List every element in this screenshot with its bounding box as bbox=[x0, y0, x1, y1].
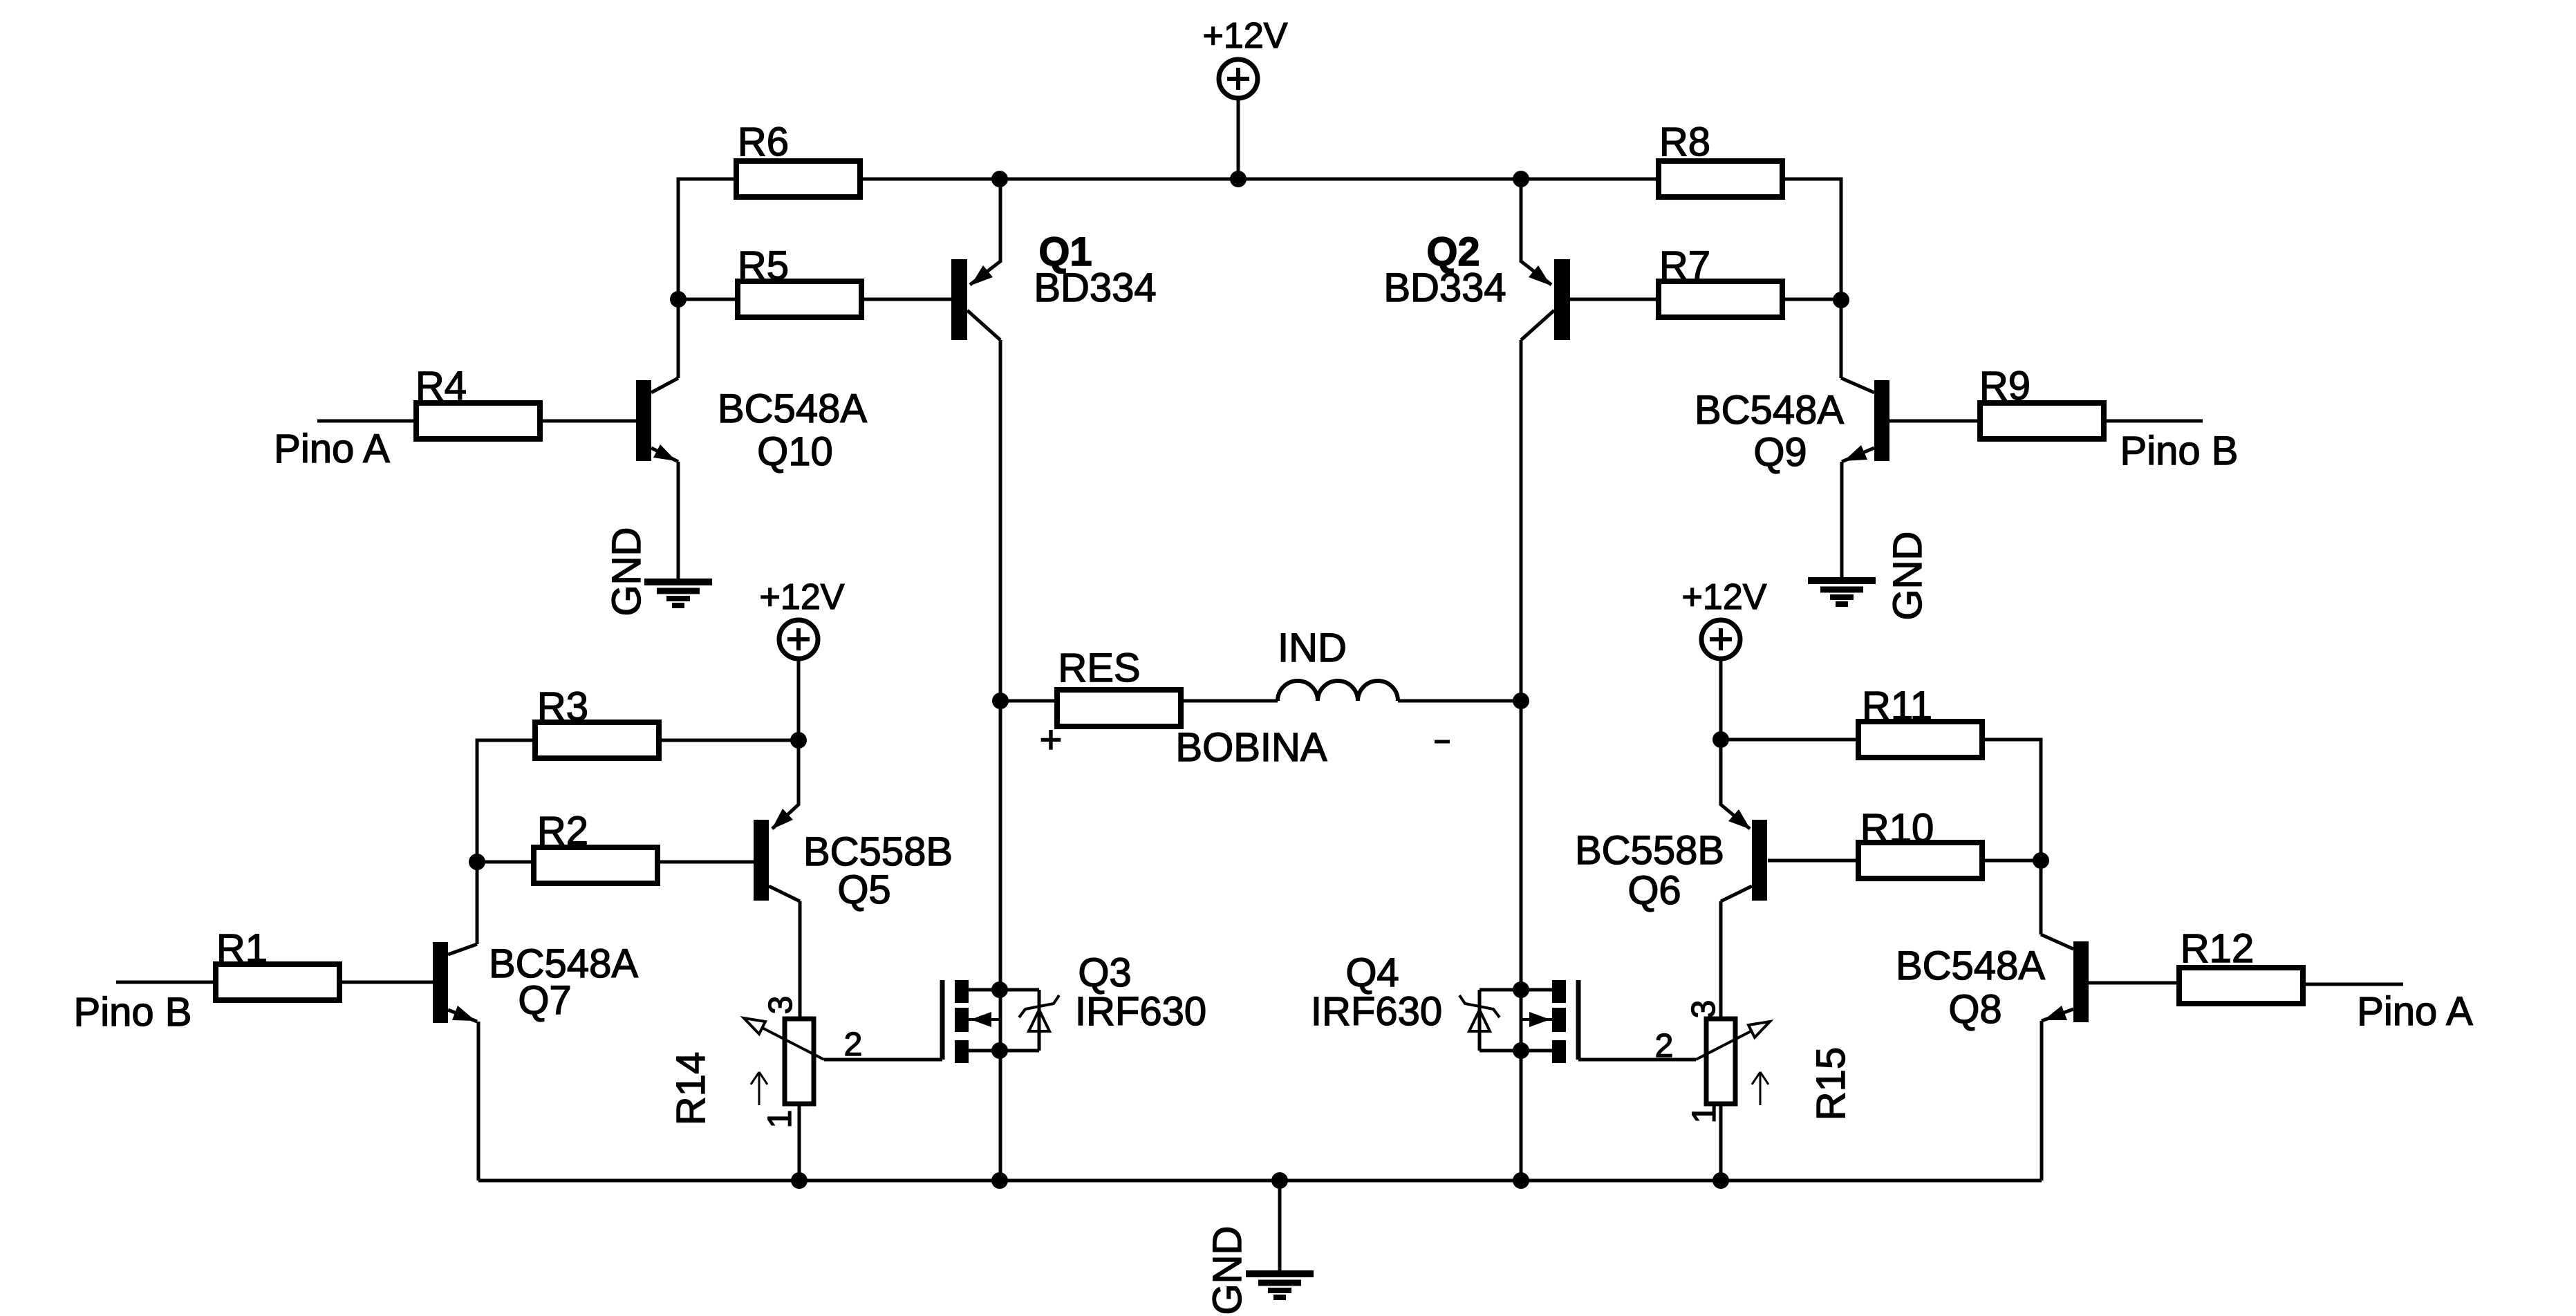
resistor R9 bbox=[1979, 364, 2104, 439]
resistor R3 bbox=[535, 684, 659, 758]
ground GND (bottom) bbox=[1246, 1274, 1314, 1297]
node RES row right bbox=[1513, 693, 1529, 709]
svg-text:Q9: Q9 bbox=[1753, 430, 1807, 475]
wire Q2 collector vertical bbox=[1520, 340, 1523, 1181]
label Pino A (right) bbox=[2357, 989, 2473, 1034]
potentiometer R15 bbox=[1696, 1019, 1770, 1105]
svg-text:Q7: Q7 bbox=[518, 978, 571, 1023]
label Q5 bbox=[837, 867, 890, 912]
transistor Q10 (BC548A NPN) bbox=[636, 378, 678, 462]
resistor R10 bbox=[1858, 806, 1982, 878]
label - (load polarity) bbox=[1435, 740, 1450, 744]
node Q3 drain bbox=[991, 981, 1008, 998]
label Q6 BC558B bbox=[1575, 828, 1724, 873]
wire R15 wiper to Q4 gate bbox=[1578, 1058, 1696, 1062]
svg-text:R10: R10 bbox=[1860, 806, 1934, 851]
label Q4 IRF630 bbox=[1311, 989, 1442, 1034]
transistor Q1 (BD334 PNP) bbox=[951, 179, 1000, 340]
wire left vertical to Q10 collector bbox=[677, 299, 680, 378]
svg-text:3: 3 bbox=[763, 996, 799, 1015]
label GND (bottom) bbox=[1205, 1226, 1250, 1315]
svg-text:+12V: +12V bbox=[1203, 16, 1288, 56]
node rail R14 bbox=[791, 1172, 808, 1189]
svg-text:+12V: +12V bbox=[760, 577, 845, 617]
ground GND (below Q10) bbox=[644, 582, 712, 605]
svg-text:BC548A: BC548A bbox=[1695, 388, 1844, 433]
node rail GND stem bbox=[1271, 1172, 1288, 1189]
label R14 pin 1 bbox=[762, 1110, 799, 1129]
label Q1 BD334 bbox=[1034, 265, 1156, 310]
svg-text:Q5: Q5 bbox=[837, 867, 890, 912]
wire R3 to +12V node bbox=[659, 739, 799, 742]
wire R8 to top-right corner bbox=[1782, 179, 1841, 378]
label + (load polarity) bbox=[1040, 717, 1063, 761]
svg-text:GND: GND bbox=[1885, 532, 1930, 621]
power +12V supply symbol (right) bbox=[1682, 577, 1767, 659]
svg-text:R6: R6 bbox=[738, 120, 789, 164]
svg-text:Q6: Q6 bbox=[1627, 868, 1681, 913]
resistor R5 bbox=[738, 243, 861, 317]
wire Q10 emitter to ground bbox=[677, 462, 680, 582]
label Q10 BC548A bbox=[718, 386, 867, 431]
label Q9 BC548A bbox=[1695, 388, 1844, 433]
svg-text:BC548A: BC548A bbox=[718, 386, 867, 431]
svg-text:1: 1 bbox=[1686, 1105, 1723, 1124]
wire Q6 base to R10 bbox=[1768, 859, 1858, 863]
wire R11 left bbox=[1721, 738, 1858, 742]
wire R15 pin1 to rail bbox=[1719, 1104, 1723, 1181]
svg-text:1: 1 bbox=[762, 1110, 799, 1129]
wire R5 to Q1 base bbox=[861, 298, 951, 301]
resistor R2 bbox=[534, 809, 657, 883]
transistor Q9 (BC548A NPN) bbox=[1841, 378, 1889, 462]
mosfet Q3 (IRF630 with body diode) bbox=[942, 980, 1059, 1063]
label IND bbox=[1278, 626, 1347, 670]
wire R4 to Q10 base bbox=[541, 420, 636, 423]
node rail Q4 source bbox=[1513, 1172, 1529, 1189]
label R14 pin 3 bbox=[763, 996, 799, 1015]
node Q4 drain bbox=[1513, 981, 1529, 998]
svg-text:Pino A: Pino A bbox=[2357, 989, 2473, 1034]
wire Q1 collector vertical bbox=[999, 340, 1002, 1181]
inductor IND bbox=[1278, 681, 1398, 701]
label R14 bbox=[669, 1052, 713, 1125]
wire Q8 base to R12 bbox=[2089, 981, 2179, 985]
wire GND bottom stem bbox=[1278, 1181, 1282, 1274]
resistor RES bbox=[1057, 646, 1181, 726]
label Q8 bbox=[1948, 987, 2001, 1032]
svg-text:R4: R4 bbox=[416, 364, 467, 408]
wire IND right bbox=[1398, 699, 1521, 703]
svg-text:BC548A: BC548A bbox=[1896, 943, 2045, 988]
transistor Q2 (BD334 PNP) bbox=[1521, 179, 1570, 340]
wire R2 left bbox=[477, 861, 534, 864]
node rail Q3 source bbox=[991, 1172, 1008, 1189]
svg-text:R9: R9 bbox=[1979, 364, 2031, 408]
svg-text:R1: R1 bbox=[216, 926, 268, 971]
wire Q7 emitter to rail bbox=[477, 1022, 480, 1181]
node top rail / Q2 emitter bbox=[1513, 171, 1529, 187]
label Q3 IRF630 bbox=[1075, 989, 1206, 1034]
transistor Q7 (BC548A NPN) bbox=[433, 942, 477, 1023]
label Q7 BC548A bbox=[489, 941, 638, 986]
resistor R8 bbox=[1659, 120, 1782, 197]
potentiometer R14 bbox=[744, 1018, 824, 1105]
wire RES left bbox=[1000, 699, 1057, 703]
svg-text:IRF630: IRF630 bbox=[1075, 989, 1206, 1034]
label Q1 bbox=[1038, 229, 1092, 274]
wire Pino A input bbox=[317, 420, 416, 423]
wire R10 right bbox=[1982, 859, 2041, 863]
wire top-left corner to R6 bbox=[678, 179, 736, 299]
svg-text:R8: R8 bbox=[1659, 120, 1710, 164]
svg-text:Pino A: Pino A bbox=[274, 426, 390, 471]
node R2 tap left bbox=[469, 854, 485, 870]
node rail R15 bbox=[1712, 1172, 1729, 1189]
wire top rail R6 to R8 bbox=[860, 178, 1659, 181]
svg-text:RES: RES bbox=[1058, 646, 1140, 690]
svg-text:R7: R7 bbox=[1659, 243, 1710, 288]
label R14 pin 2 bbox=[844, 1026, 863, 1063]
resistor R6 bbox=[736, 120, 860, 197]
mosfet Q4 (IRF630 with body diode) bbox=[1459, 980, 1578, 1063]
label R15 pin 3 bbox=[1686, 1000, 1722, 1019]
svg-text:3: 3 bbox=[1686, 1000, 1722, 1019]
svg-text:+: + bbox=[1040, 717, 1063, 761]
svg-text:+12V: +12V bbox=[1682, 577, 1767, 617]
svg-text:BD334: BD334 bbox=[1383, 265, 1506, 310]
label Q9 bbox=[1753, 430, 1807, 475]
wire R1 to Q7 base bbox=[339, 981, 433, 984]
label GND (left top) bbox=[604, 527, 649, 617]
resistor R12 bbox=[2179, 926, 2303, 1004]
svg-text:R15: R15 bbox=[1809, 1047, 1854, 1120]
wire R14 pin1 to rail bbox=[798, 1104, 801, 1181]
svg-text:R11: R11 bbox=[1862, 684, 1932, 728]
label R15 pin 2 bbox=[1655, 1028, 1674, 1064]
wire R3 row left corner bbox=[477, 740, 535, 944]
wire R2 to Q5 base bbox=[657, 861, 754, 864]
label Q2 BD334 bbox=[1383, 265, 1506, 310]
wire R7 to Q2 base bbox=[1568, 298, 1659, 301]
svg-text:BC558B: BC558B bbox=[1575, 828, 1724, 873]
wire R12 to Pino A bbox=[2303, 983, 2403, 986]
node R7 tap right bbox=[1833, 292, 1849, 308]
label Q7 bbox=[518, 978, 571, 1023]
wire Q9 emitter to ground bbox=[1840, 462, 1844, 581]
svg-text:R3: R3 bbox=[537, 684, 588, 729]
wire +12V left stem bbox=[797, 659, 801, 740]
label Q5 BC558B bbox=[803, 829, 953, 874]
wire R11 right corner bbox=[1982, 740, 2041, 934]
label R15 bbox=[1809, 1047, 1854, 1120]
wire R5 left bbox=[678, 298, 738, 301]
svg-text:R5: R5 bbox=[738, 243, 789, 288]
wire +12V right stem bbox=[1719, 659, 1723, 740]
svg-text:Pino B: Pino B bbox=[74, 990, 192, 1035]
svg-text:2: 2 bbox=[844, 1026, 863, 1063]
wire R7 right bbox=[1782, 298, 1841, 301]
label Q2 bbox=[1426, 229, 1480, 274]
label Q3 bbox=[1078, 950, 1131, 995]
svg-text:Q10: Q10 bbox=[757, 429, 833, 474]
node R11 row tap bbox=[1712, 731, 1729, 748]
wire RES to IND bbox=[1181, 699, 1278, 703]
node top rail / Q1 emitter bbox=[991, 171, 1008, 187]
wire Q5 collector to R14 bbox=[799, 901, 802, 1019]
power +12V supply symbol (left) bbox=[760, 577, 845, 659]
resistor R4 bbox=[416, 364, 540, 439]
resistor R1 bbox=[216, 926, 339, 1000]
transistor Q6 (BC558B PNP) bbox=[1721, 740, 1767, 901]
node RES row left bbox=[992, 693, 1009, 709]
wire +12V top stem bbox=[1237, 98, 1240, 179]
label GND (right top) bbox=[1885, 532, 1930, 621]
label Pino B (right) bbox=[2120, 429, 2239, 473]
label Q10 bbox=[757, 429, 833, 474]
resistor R7 bbox=[1659, 243, 1782, 317]
ground GND (below Q9) bbox=[1808, 581, 1876, 604]
transistor Q5 (BC558B PNP) bbox=[754, 740, 800, 901]
wire bottom ground rail bbox=[478, 1179, 2042, 1183]
svg-text:IRF630: IRF630 bbox=[1311, 989, 1442, 1034]
node Q4 source bbox=[1513, 1042, 1529, 1059]
node top rail / +12V tap bbox=[1230, 171, 1247, 187]
wire R9 to Pino B bbox=[2104, 420, 2203, 423]
label Q6 bbox=[1627, 868, 1681, 913]
svg-text:Pino B: Pino B bbox=[2120, 429, 2239, 473]
label Q8 BC548A bbox=[1896, 943, 2045, 988]
transistor Q8 (BC548A NPN) bbox=[2041, 934, 2089, 1022]
svg-text:Q8: Q8 bbox=[1948, 987, 2001, 1032]
wire Pino B input bbox=[116, 981, 216, 984]
power +12V supply symbol (top) bbox=[1203, 16, 1288, 98]
wire Q8 emitter to rail bbox=[2040, 1021, 2044, 1181]
svg-text:GND: GND bbox=[1205, 1226, 1250, 1315]
svg-text:BOBINA: BOBINA bbox=[1175, 725, 1327, 770]
svg-text:R2: R2 bbox=[537, 809, 588, 854]
label Pino A (left) bbox=[274, 426, 390, 471]
label Q4 bbox=[1345, 950, 1399, 995]
svg-text:R14: R14 bbox=[669, 1052, 713, 1125]
label R15 pin 1 bbox=[1686, 1105, 1723, 1124]
wire Q9 base to R9 bbox=[1889, 420, 1980, 423]
node Q3 source bbox=[991, 1042, 1008, 1059]
node R3 row tap bbox=[790, 732, 807, 749]
svg-text:IND: IND bbox=[1278, 626, 1347, 670]
wire R14 wiper to Q3 gate bbox=[824, 1058, 942, 1062]
label BOBINA bbox=[1175, 725, 1327, 770]
node R10 tap right bbox=[2033, 852, 2049, 869]
svg-text:GND: GND bbox=[604, 527, 649, 617]
label Pino B (left) bbox=[74, 990, 192, 1035]
wire Q6 collector to R15 bbox=[1719, 901, 1723, 1019]
svg-text:BD334: BD334 bbox=[1034, 265, 1156, 310]
svg-text:R12: R12 bbox=[2181, 926, 2254, 971]
resistor R11 bbox=[1858, 684, 1982, 758]
node R5 tap left bbox=[670, 291, 687, 308]
